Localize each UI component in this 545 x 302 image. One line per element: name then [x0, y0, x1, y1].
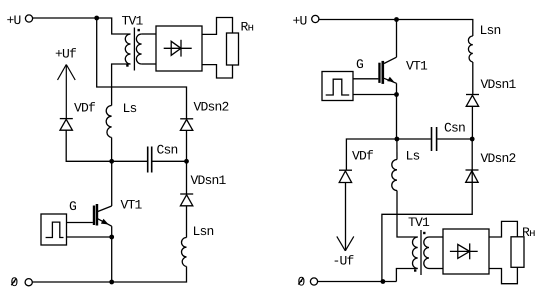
wire bridge to Rn top (right) — [489, 221, 517, 237]
wire VDsn2 to node — [186, 130, 188, 161]
node snubber right junction — [184, 159, 189, 164]
svg-text:Rн: Rн — [522, 225, 535, 240]
wire Ls node down to coil — [396, 139, 398, 160]
node +U junction (right) — [394, 17, 399, 22]
node emitter junction (left) — [109, 235, 114, 240]
wire VDsn1 to Lsn — [186, 206, 188, 238]
bridge rectifier diode symbol (left) — [164, 40, 192, 57]
wire bottom rail (right) — [318, 281, 397, 283]
svg-text:VDsn1: VDsn1 — [481, 77, 517, 92]
node Csn right junction — [470, 137, 475, 142]
wire TV1 primary bottom to Ls — [112, 64, 131, 106]
wire VDf branch node (right) — [346, 139, 397, 170]
wire collector rail (right) — [396, 20, 398, 58]
transformer TV1 (right) secondary winding — [424, 237, 429, 269]
diode VDsn1 (right) — [466, 95, 479, 107]
transformer TV1 (right) polarity dot secondary — [423, 232, 425, 234]
wire emitter rail (left) — [111, 226, 113, 282]
transformer TV1 (left) secondary winding — [136, 34, 141, 64]
wire TV1 secondary bottom to bridge — [142, 63, 156, 65]
wire VDf to snubber node — [66, 130, 112, 161]
svg-text:G: G — [356, 57, 363, 72]
wire collector rail (left) — [111, 161, 113, 206]
wire TV1 secondary top to bridge — [142, 33, 156, 35]
node bottom rail junction (right) — [381, 279, 386, 284]
svg-text:+U: +U — [7, 13, 21, 28]
wire bridge to Rn top (left) — [202, 18, 233, 35]
svg-text:+U: +U — [293, 13, 307, 28]
wire TV1 secondary bottom to bridge (right) — [429, 268, 443, 270]
inductor Lsn (right) — [468, 36, 472, 62]
node Ls junction (right) — [395, 137, 400, 142]
node junction A on +U rail — [94, 16, 99, 21]
bridge rectifier box (left) — [156, 26, 202, 71]
svg-text:Csn: Csn — [444, 121, 465, 136]
inductor Ls (right) — [392, 160, 397, 191]
node snubber left junction — [109, 159, 114, 164]
svg-text:-Uf: -Uf — [333, 253, 354, 268]
transformer TV1 (left) core — [133, 28, 135, 71]
svg-text:VT1: VT1 — [121, 198, 143, 213]
node 0 terminal (right) — [310, 278, 317, 285]
label 0 (right) — [298, 274, 305, 289]
node +U terminal (right) — [312, 15, 319, 22]
wire Lsn to VDsn1 (right) — [472, 62, 474, 95]
svg-text:TV1: TV1 — [408, 215, 430, 230]
transformer TV1 (left) polarity dot secondary — [138, 29, 140, 31]
transformer TV1 (left) primary winding — [125, 34, 130, 64]
diode VDf (right) — [339, 170, 352, 182]
svg-text:VDf: VDf — [352, 149, 373, 164]
capacitor Csn (left) — [112, 147, 187, 173]
svg-text:+Uf: +Uf — [55, 46, 76, 61]
wire emitter to Ls node (right) — [396, 83, 398, 139]
transformer TV1 (right) polarity dot primary — [414, 269, 416, 271]
node emitter junction (right) — [394, 92, 399, 97]
diode VDsn2 (left) — [180, 119, 193, 131]
wire VDf to -Uf arrow — [345, 183, 347, 251]
wire G to emitter rail (left) — [67, 236, 112, 238]
transformer TV1 (left) polarity dot primary — [126, 64, 128, 66]
svg-text:VDf: VDf — [74, 101, 95, 116]
svg-text:Rн: Rн — [241, 19, 254, 34]
label 0 (left) — [11, 275, 18, 290]
svg-text:VT1: VT1 — [406, 58, 428, 73]
capacitor Csn (right) — [397, 127, 472, 151]
diode VDf (left) — [60, 119, 73, 131]
node 0 terminal (left) — [25, 279, 32, 286]
arrow +Uf output — [58, 65, 76, 119]
inductor Ls (left) — [106, 106, 111, 138]
wire VDsn2 return to bottom rail — [382, 139, 472, 282]
generator G box (right) — [322, 72, 353, 101]
wire +U rail to TV1 primary top — [33, 18, 131, 34]
svg-text:Csn: Csn — [157, 143, 178, 158]
svg-text:Ls: Ls — [406, 148, 420, 163]
svg-text:G: G — [69, 199, 76, 214]
svg-text:Ls: Ls — [123, 101, 137, 116]
svg-text:VDsn2: VDsn2 — [194, 100, 229, 115]
node +U terminal (left) — [25, 15, 32, 22]
svg-text:VDsn2: VDsn2 — [481, 151, 516, 166]
transistor VT1 (left) — [93, 204, 112, 226]
wire Ls to TV1 primary top (right) — [397, 191, 418, 238]
wire +U junction down and across to VDsn2 — [97, 18, 187, 119]
diode VDsn1 (left) — [180, 194, 193, 206]
node bottom rail junction (left) — [109, 280, 114, 285]
wire TV1 primary bottom to rail (right) — [396, 269, 417, 282]
wire +U rail to Lsn (right) — [319, 20, 473, 37]
svg-text:Lsn: Lsn — [193, 224, 214, 239]
wire G to gate (right) — [353, 78, 378, 80]
arrow -Uf output — [337, 236, 354, 250]
wire Ls bottom to node — [111, 138, 113, 162]
generator G pulse symbol (left) — [46, 222, 64, 237]
wire bridge to Rn bottom (left) — [202, 65, 233, 78]
svg-text:VDsn1: VDsn1 — [191, 173, 227, 188]
wire G to emitter rail (right) — [353, 94, 397, 96]
resistor Rn (right) — [511, 237, 524, 267]
wire G to gate (left) — [67, 222, 93, 224]
bridge rectifier box (right) — [443, 229, 489, 274]
transistor VT1 (right) — [378, 57, 396, 84]
svg-text:Lsn: Lsn — [480, 23, 501, 38]
generator G pulse symbol (right) — [326, 79, 350, 95]
transformer TV1 (right) core — [420, 230, 422, 275]
wire TV1 secondary top to bridge (right) — [429, 236, 443, 238]
wire VDsn1 to Csn node (right) — [471, 106, 473, 139]
bridge rectifier diode symbol (right) — [450, 243, 478, 259]
svg-text:TV1: TV1 — [122, 14, 144, 29]
transformer TV1 (right) primary winding — [413, 237, 418, 269]
wire bridge to Rn bottom (right) — [489, 267, 517, 283]
wire node to VDsn1 — [186, 161, 188, 194]
inductor Lsn (left) — [182, 238, 187, 267]
resistor Rn (left) — [227, 33, 239, 65]
generator G box (left) — [41, 214, 67, 245]
diode VDsn2 (right) — [466, 170, 479, 182]
wire Lsn to bottom rail — [32, 267, 186, 283]
